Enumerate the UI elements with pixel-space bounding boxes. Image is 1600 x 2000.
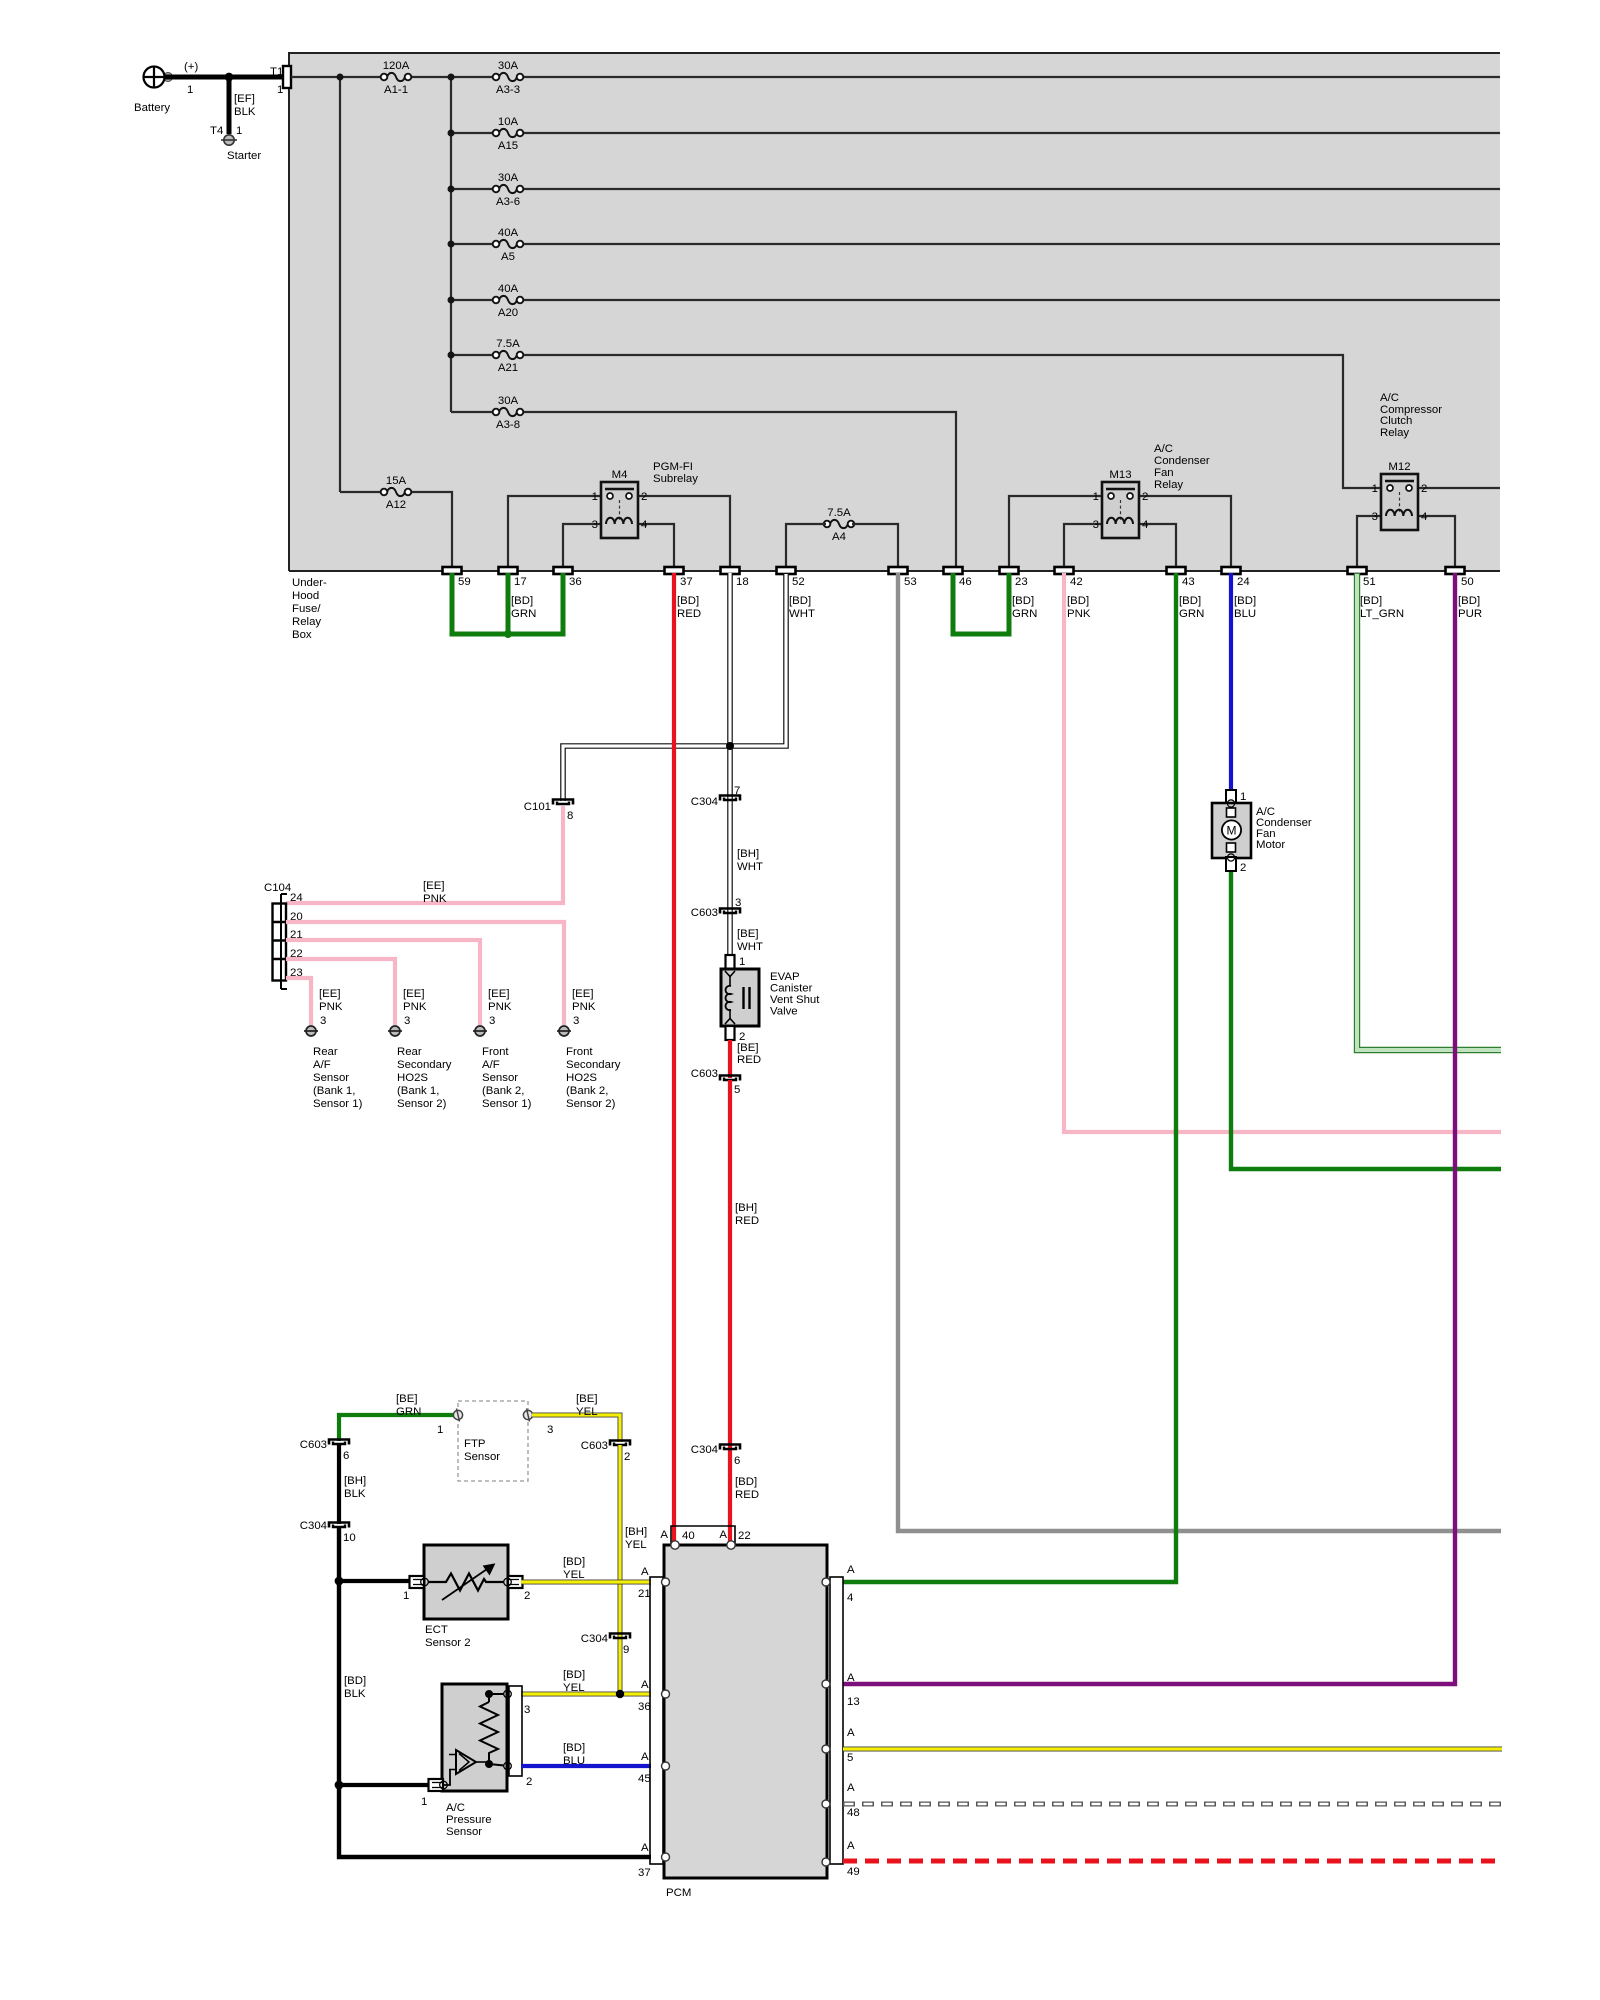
- svg-text:BLK: BLK: [344, 1688, 366, 1700]
- terminal 52 under-hood fuse box: [777, 567, 805, 588]
- svg-text:RED: RED: [735, 1489, 759, 1501]
- wire fuse row A3-8 to terminal 46: [451, 412, 956, 567]
- wire [BE] YEL FTP pin 3 to C603-2: [532, 1393, 620, 1442]
- svg-text:18: 18: [736, 576, 749, 588]
- terminal 51 under-hood fuse box: [1348, 567, 1376, 588]
- svg-text:A/F: A/F: [482, 1059, 500, 1071]
- fuse A15 10A: [493, 116, 524, 152]
- svg-text:GRN: GRN: [1012, 608, 1037, 620]
- svg-text:3: 3: [320, 1015, 326, 1027]
- wire [BD] GRN terminal 43 to PCM A4: [843, 573, 1176, 1582]
- svg-text:10: 10: [343, 1532, 356, 1544]
- under-hood fuse/relay box label: [292, 577, 327, 641]
- svg-text:BLK: BLK: [234, 106, 256, 118]
- svg-text:(+): (+): [184, 61, 198, 73]
- wire [BD] YEL ECT pin 2 to PCM A21: [521, 1556, 651, 1582]
- wire fuse row A20: [451, 299, 1500, 301]
- wire GRY terminal 53 to right edge: [898, 573, 1501, 1531]
- svg-text:Sensor: Sensor: [482, 1072, 518, 1084]
- svg-text:A/F: A/F: [313, 1059, 331, 1071]
- svg-text:1: 1: [437, 1424, 443, 1436]
- svg-text:48: 48: [847, 1807, 860, 1819]
- battery B1: [134, 61, 198, 114]
- svg-text:EVAP: EVAP: [770, 971, 800, 983]
- svg-text:[EE]: [EE]: [319, 988, 341, 1000]
- svg-text:36: 36: [638, 1701, 651, 1713]
- ECT sensor 2: [403, 1545, 530, 1619]
- svg-text:Sensor 2): Sensor 2): [566, 1098, 616, 1110]
- svg-text:30A: 30A: [498, 172, 519, 184]
- wire [EE] PNK C104-23 to rear A/F sensor: [286, 978, 311, 1025]
- svg-text:[BD]: [BD]: [1179, 595, 1201, 607]
- svg-text:36: 36: [569, 576, 582, 588]
- PCM left connector bracket: [650, 1577, 663, 1864]
- svg-text:Sensor: Sensor: [313, 1072, 349, 1084]
- svg-text:3: 3: [592, 519, 598, 531]
- A/C pressure sensor: [421, 1684, 532, 1808]
- svg-text:6: 6: [734, 1455, 740, 1467]
- svg-text:42: 42: [1070, 576, 1083, 588]
- wire fuse row A3-6: [451, 188, 1500, 190]
- svg-text:Hood: Hood: [292, 590, 319, 602]
- svg-text:[BD]: [BD]: [563, 1669, 585, 1681]
- terminal 50 under-hood fuse box: [1446, 567, 1474, 588]
- svg-text:24: 24: [1237, 576, 1250, 588]
- terminal 23 under-hood fuse box: [1000, 567, 1028, 588]
- svg-text:120A: 120A: [383, 60, 410, 72]
- svg-text:BLU: BLU: [1234, 608, 1256, 620]
- svg-text:HO2S: HO2S: [397, 1072, 428, 1084]
- svg-text:3: 3: [1372, 511, 1378, 523]
- svg-text:ECT: ECT: [425, 1624, 448, 1636]
- svg-text:M12: M12: [1388, 461, 1410, 473]
- svg-text:C304: C304: [691, 1444, 718, 1456]
- svg-text:1: 1: [1372, 483, 1378, 495]
- terminal 37 under-hood fuse box: [665, 567, 693, 588]
- wire [EE] PNK C104-22 to rear secondary HO2S: [286, 959, 395, 1025]
- svg-text:Condenser: Condenser: [1154, 455, 1210, 467]
- connector C304 pin 7: [691, 785, 741, 808]
- svg-text:Relay: Relay: [1154, 479, 1183, 491]
- svg-text:43: 43: [1182, 576, 1195, 588]
- wire [BD] BLU terminal 24 to fan motor: [1229, 573, 1233, 791]
- ECT sensor 2 label: [425, 1624, 471, 1649]
- PCM pin A13: [822, 1672, 860, 1708]
- svg-text:Under-: Under-: [292, 577, 327, 589]
- svg-text:Secondary: Secondary: [566, 1059, 621, 1071]
- svg-text:4: 4: [641, 519, 647, 531]
- wire relay M13 pin 3 to terminal 42: [1064, 524, 1102, 567]
- svg-text:YEL: YEL: [576, 1406, 598, 1418]
- node battery/starter junction: [225, 73, 234, 82]
- svg-text:2: 2: [641, 491, 647, 503]
- svg-text:2: 2: [526, 1776, 532, 1788]
- connector C603 pin 6: [300, 1439, 350, 1462]
- svg-text:A3-6: A3-6: [496, 196, 520, 208]
- svg-text:Relay: Relay: [292, 616, 321, 628]
- svg-text:5: 5: [847, 1752, 853, 1764]
- svg-text:C603: C603: [581, 1440, 608, 1452]
- svg-text:A: A: [641, 1566, 649, 1578]
- terminal 24 under-hood fuse box: [1222, 567, 1250, 588]
- PCM pin A37: [638, 1842, 670, 1879]
- svg-text:Subrelay: Subrelay: [653, 473, 698, 485]
- svg-text:A: A: [660, 1529, 668, 1541]
- svg-text:[BD]: [BD]: [1067, 595, 1089, 607]
- wire color label GRN at terminal: [511, 595, 536, 620]
- svg-text:Front: Front: [482, 1046, 509, 1058]
- svg-text:PNK: PNK: [1067, 608, 1091, 620]
- svg-text:C304: C304: [300, 1520, 327, 1532]
- svg-text:[BD]: [BD]: [511, 595, 533, 607]
- svg-text:Pressure: Pressure: [446, 1814, 492, 1826]
- svg-text:7.5A: 7.5A: [827, 507, 851, 519]
- svg-text:37: 37: [680, 576, 693, 588]
- svg-text:51: 51: [1363, 576, 1376, 588]
- svg-text:[EF]: [EF]: [234, 93, 255, 105]
- wire color label BLU at terminal: [1234, 595, 1256, 620]
- svg-text:PUR: PUR: [1458, 608, 1482, 620]
- svg-text:40: 40: [682, 1530, 695, 1542]
- PCM pin A49: [822, 1840, 860, 1878]
- wire vertical bus 1: [339, 77, 341, 492]
- svg-text:15A: 15A: [386, 475, 407, 487]
- svg-text:[BH]: [BH]: [625, 1526, 647, 1538]
- svg-text:50: 50: [1461, 576, 1474, 588]
- starter terminal: [221, 135, 261, 162]
- connector C603 pin 5: [691, 1068, 741, 1096]
- PCM pin A48: [822, 1782, 860, 1819]
- wire fuse row A12 to terminal 59: [340, 492, 452, 567]
- svg-text:BLU: BLU: [563, 1755, 585, 1767]
- svg-text:24: 24: [290, 892, 303, 904]
- svg-text:2: 2: [1142, 491, 1148, 503]
- A/C condenser fan motor label: [1256, 806, 1312, 851]
- wire [BH] YEL C603-2 to junction: [620, 1445, 647, 1694]
- svg-text:Valve: Valve: [770, 1006, 798, 1018]
- svg-text:Sensor: Sensor: [446, 1826, 482, 1838]
- svg-text:1: 1: [421, 1796, 427, 1808]
- svg-text:40A: 40A: [498, 283, 519, 295]
- terminal 43 under-hood fuse box: [1167, 567, 1195, 588]
- svg-text:A3-8: A3-8: [496, 419, 520, 431]
- relay M4 description label: [653, 461, 698, 485]
- wire relay M13 pin 1 to terminal 23: [1009, 496, 1102, 567]
- svg-text:[BD]: [BD]: [1360, 595, 1382, 607]
- svg-text:GRN: GRN: [511, 608, 536, 620]
- wire relay M12 pin 4 to terminal 50: [1417, 516, 1455, 567]
- svg-text:Sensor 1): Sensor 1): [482, 1098, 532, 1110]
- svg-text:3: 3: [735, 897, 741, 909]
- svg-text:37: 37: [638, 1867, 651, 1879]
- svg-text:A: A: [847, 1672, 855, 1684]
- sensor Front Secondary terminal pin 3: [557, 988, 596, 1036]
- svg-text:Vent Shut: Vent Shut: [770, 994, 820, 1006]
- svg-text:Secondary: Secondary: [397, 1059, 452, 1071]
- connector C304 pin 6: [691, 1444, 741, 1467]
- svg-text:49: 49: [847, 1866, 860, 1878]
- wire label [BH] WHT: [737, 848, 763, 873]
- svg-text:[EE]: [EE]: [488, 988, 510, 1000]
- svg-text:A: A: [847, 1727, 855, 1739]
- svg-text:YEL: YEL: [625, 1539, 647, 1551]
- wire color label GRN at terminal: [1179, 595, 1204, 620]
- FTP sensor (dashed): [437, 1401, 553, 1481]
- svg-text:Sensor 1): Sensor 1): [313, 1098, 363, 1110]
- PCM pin A45: [638, 1751, 670, 1785]
- svg-text:YEL: YEL: [563, 1569, 585, 1581]
- wire [EE] PNK C101 to C104 pin 24: [286, 806, 563, 905]
- svg-text:PNK: PNK: [403, 1001, 427, 1013]
- sensor label Rear Secondary: [397, 1046, 452, 1110]
- svg-text:YEL: YEL: [563, 1682, 585, 1694]
- sensor Rear Secondary terminal pin 3: [388, 988, 427, 1036]
- svg-text:(Bank 2,: (Bank 2,: [566, 1085, 608, 1097]
- connector C603 pin 2: [581, 1440, 631, 1463]
- svg-text:1: 1: [236, 125, 242, 137]
- connector C304 pin 10: [300, 1520, 356, 1544]
- wire relay M4 pin 1 to terminal 17: [508, 496, 601, 567]
- svg-text:13: 13: [847, 1696, 860, 1708]
- svg-text:T1: T1: [270, 66, 283, 78]
- svg-text:PCM: PCM: [666, 1887, 691, 1899]
- fuse A5 40A: [493, 227, 524, 263]
- wire WHT terminal 52 branch to C101: [563, 573, 786, 801]
- wire [BD] YEL PCM A5 to right edge: [843, 1747, 1502, 1752]
- sensor label Rear A/F: [313, 1046, 363, 1110]
- svg-text:Rear: Rear: [313, 1046, 338, 1058]
- svg-text:3: 3: [573, 1015, 579, 1027]
- svg-text:[BH]: [BH]: [737, 848, 759, 860]
- fuse A12 15A: [381, 475, 412, 511]
- svg-text:C603: C603: [300, 1439, 327, 1451]
- wire WHT terminal 18 to C304-7 and EVAP valve: [727, 573, 733, 955]
- svg-text:PNK: PNK: [572, 1001, 596, 1013]
- svg-text:52: 52: [792, 576, 805, 588]
- wire vertical bus 2: [450, 77, 452, 412]
- svg-text:Sensor 2): Sensor 2): [397, 1098, 447, 1110]
- wire [BD] BLU pressure sensor pin 2 to PCM A45: [521, 1742, 651, 1767]
- fuse A20 40A: [493, 283, 524, 319]
- under-hood fuse/relay box: [289, 53, 1500, 571]
- svg-text:Fuse/: Fuse/: [292, 603, 321, 615]
- wire [BD] YEL junction to PCM A36: [521, 1669, 651, 1698]
- wire fuse row A21 to relay M12 pin 1: [451, 355, 1381, 488]
- wire [BD] RED terminal 37 to PCM A40: [672, 573, 676, 1541]
- relay M12 description label: [1380, 392, 1442, 439]
- wire [BD] GRN terminals 59-17-36: [452, 573, 563, 638]
- svg-text:A21: A21: [498, 362, 518, 374]
- fuse A1-1 120A: [381, 60, 412, 96]
- svg-text:Motor: Motor: [1256, 839, 1285, 851]
- wire relay M4 pin 3 to terminal 36: [563, 524, 601, 567]
- wire color label GRN at terminal: [1012, 595, 1037, 620]
- svg-text:21: 21: [638, 1588, 651, 1600]
- svg-text:[BH]: [BH]: [344, 1475, 366, 1487]
- svg-text:PNK: PNK: [423, 893, 447, 905]
- svg-text:LT_GRN: LT_GRN: [1360, 608, 1404, 620]
- EVAP valve label: [770, 971, 820, 1018]
- svg-text:2: 2: [624, 1451, 630, 1463]
- wire relay M4 pin 2 to terminal 18: [638, 496, 730, 567]
- connector C603 pin 3: [691, 897, 742, 919]
- wire color label WHT at terminal: [789, 595, 815, 620]
- sensor label Front Secondary: [566, 1046, 621, 1110]
- svg-text:A/C: A/C: [1154, 443, 1173, 455]
- svg-text:[BD]: [BD]: [677, 595, 699, 607]
- wire color label RED at terminal: [677, 595, 701, 620]
- svg-text:2: 2: [1240, 862, 1246, 874]
- wire BLK branch to ECT sensor 2 pin 1: [335, 1577, 410, 1586]
- wire relay M13 pin 2 to terminal 24: [1139, 496, 1231, 567]
- svg-text:[EE]: [EE]: [403, 988, 425, 1000]
- svg-text:10A: 10A: [498, 116, 519, 128]
- svg-text:53: 53: [904, 576, 917, 588]
- svg-text:Sensor 2: Sensor 2: [425, 1637, 471, 1649]
- wire [BE] GRN FTP pin 1 to C603-6: [339, 1393, 453, 1441]
- svg-text:4: 4: [1142, 519, 1148, 531]
- wire [BH] BLK C603-6 to C304-10: [339, 1444, 366, 1524]
- wire [BD] PUR terminal 50 to PCM A13: [843, 573, 1455, 1684]
- svg-text:M: M: [1227, 824, 1237, 838]
- svg-text:PNK: PNK: [319, 1001, 343, 1013]
- terminal 53 under-hood fuse box: [889, 567, 917, 588]
- svg-text:A/C: A/C: [446, 1802, 465, 1814]
- svg-text:T4: T4: [210, 125, 223, 137]
- svg-text:30A: 30A: [498, 60, 519, 72]
- svg-text:[BD]: [BD]: [1234, 595, 1256, 607]
- svg-text:3: 3: [489, 1015, 495, 1027]
- svg-text:[BD]: [BD]: [563, 1742, 585, 1754]
- wire relay M4 pin 4 to terminal 37: [638, 524, 674, 567]
- svg-text:3: 3: [1093, 519, 1099, 531]
- svg-text:[BE]: [BE]: [737, 928, 759, 940]
- svg-text:PNK: PNK: [488, 1001, 512, 1013]
- svg-text:A: A: [641, 1751, 649, 1763]
- svg-text:A/C: A/C: [1380, 392, 1399, 404]
- svg-text:[BD]: [BD]: [1458, 595, 1480, 607]
- svg-text:2: 2: [524, 1590, 530, 1602]
- svg-text:Starter: Starter: [227, 150, 261, 162]
- wire [BD] PNK terminal 42 to right edge: [1064, 573, 1501, 1132]
- svg-text:A: A: [847, 1840, 855, 1852]
- PCM: [664, 1545, 827, 1899]
- fuse A3-3 30A: [493, 60, 524, 96]
- fuse A3-8 30A: [493, 395, 524, 431]
- svg-text:A5: A5: [501, 251, 515, 263]
- svg-text:17: 17: [514, 576, 527, 588]
- wire [BE] RED valve pin 2 to C603-5: [730, 1040, 761, 1078]
- node bus junctions: [337, 74, 455, 359]
- svg-text:3: 3: [404, 1015, 410, 1027]
- svg-text:30A: 30A: [498, 395, 519, 407]
- svg-text:M4: M4: [612, 469, 628, 481]
- svg-text:(Bank 1,: (Bank 1,: [313, 1085, 355, 1097]
- svg-text:RED: RED: [677, 608, 701, 620]
- svg-text:C101: C101: [524, 801, 551, 813]
- svg-text:46: 46: [959, 576, 972, 588]
- svg-text:3: 3: [547, 1424, 553, 1436]
- wire [BD] GRN terminals 46-23: [953, 573, 1009, 634]
- svg-text:[EE]: [EE]: [423, 880, 445, 892]
- wire relay M13 pin 4 to terminal 43: [1139, 524, 1176, 567]
- svg-text:59: 59: [458, 576, 471, 588]
- svg-text:[BD]: [BD]: [344, 1675, 366, 1687]
- svg-text:C304: C304: [581, 1633, 608, 1645]
- wire color label LT_GRN at terminal: [1360, 595, 1404, 620]
- svg-text:A: A: [641, 1842, 649, 1854]
- wire main bus from T1: [291, 76, 1500, 78]
- svg-text:[BH]: [BH]: [735, 1202, 757, 1214]
- svg-text:Relay: Relay: [1380, 427, 1409, 439]
- terminal 59 under-hood fuse box: [443, 567, 471, 588]
- svg-text:4: 4: [847, 1592, 853, 1604]
- svg-text:HO2S: HO2S: [566, 1072, 597, 1084]
- terminal 46 under-hood fuse box: [944, 567, 972, 588]
- svg-text:A1-1: A1-1: [384, 84, 408, 96]
- svg-text:[BE]: [BE]: [396, 1393, 418, 1405]
- wire dashed WHT PCM A48 to right edge: [843, 1802, 1502, 1807]
- wire [BD] LT_GRN terminal 51 to right edge: [1357, 573, 1501, 1050]
- svg-text:WHT: WHT: [737, 861, 763, 873]
- svg-text:7.5A: 7.5A: [496, 338, 520, 350]
- relay M4 PGM-FI subrelay: [592, 469, 648, 538]
- svg-text:[BE]: [BE]: [737, 1042, 759, 1054]
- connector C101 pin 8: [524, 800, 574, 823]
- svg-text:C304: C304: [691, 796, 718, 808]
- svg-text:Battery: Battery: [134, 102, 170, 114]
- svg-text:A15: A15: [498, 140, 518, 152]
- fuse A4 7.5A: [824, 507, 855, 543]
- svg-text:M13: M13: [1109, 469, 1131, 481]
- wire label [BD] RED: [735, 1476, 759, 1501]
- wire GRN fan motor to right edge: [1231, 870, 1501, 1169]
- wire color label PNK at terminal: [1067, 595, 1091, 620]
- relay M13 description label: [1154, 443, 1210, 491]
- svg-text:(Bank 1,: (Bank 1,: [397, 1085, 439, 1097]
- svg-text:[BE]: [BE]: [576, 1393, 598, 1405]
- sensor Front A/F terminal pin 3: [473, 988, 512, 1036]
- svg-text:Sensor: Sensor: [464, 1451, 500, 1463]
- wire BLK branch to A/C pressure sensor pin 1: [335, 1781, 430, 1790]
- svg-text:[EE]: [EE]: [572, 988, 594, 1000]
- svg-text:3: 3: [524, 1704, 530, 1716]
- svg-text:Front: Front: [566, 1046, 593, 1058]
- wire relay M12 pin 3 to terminal 51: [1357, 516, 1381, 567]
- svg-text:A12: A12: [386, 499, 406, 511]
- svg-text:GRN: GRN: [396, 1406, 421, 1418]
- terminal 18 under-hood fuse box: [721, 567, 749, 588]
- wire [EE] PNK C104-21 to front A/F sensor: [286, 940, 480, 1025]
- wire label [BE] WHT: [737, 928, 763, 953]
- svg-text:A20: A20: [498, 307, 518, 319]
- svg-text:5: 5: [734, 1084, 740, 1096]
- svg-text:PGM-FI: PGM-FI: [653, 461, 693, 473]
- svg-text:9: 9: [623, 1644, 629, 1656]
- svg-text:8: 8: [567, 810, 573, 822]
- sensor label Front A/F: [482, 1046, 532, 1110]
- PCM pin A21: [638, 1566, 670, 1600]
- svg-text:1: 1: [592, 491, 598, 503]
- PCM pin A36: [638, 1679, 670, 1713]
- svg-text:A: A: [719, 1529, 727, 1541]
- svg-text:Canister: Canister: [770, 983, 813, 995]
- wire battery positive to T1 (thick): [164, 75, 283, 80]
- svg-text:A: A: [641, 1679, 649, 1691]
- wire [EE] PNK C104-20 to front secondary HO2S: [286, 922, 564, 1025]
- svg-text:C603: C603: [691, 1068, 718, 1080]
- svg-text:Fan: Fan: [1154, 467, 1174, 479]
